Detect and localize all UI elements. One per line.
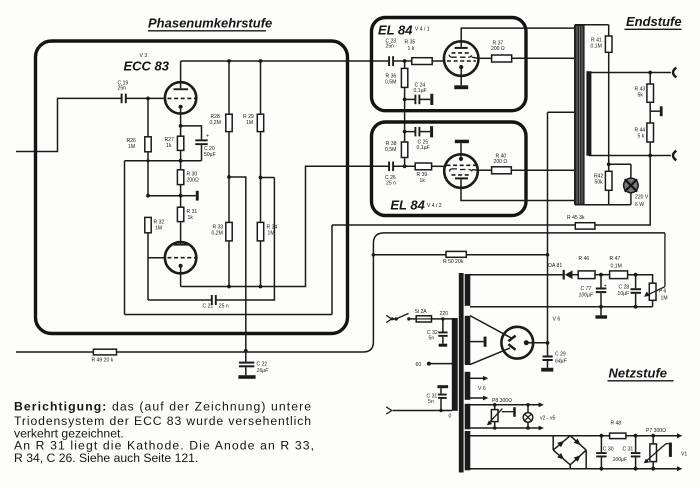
svg-text:0,5M: 0,5M <box>385 79 396 85</box>
resistor R50 <box>372 251 550 265</box>
switch mains <box>392 313 410 320</box>
output stage box EL84 V4/1 <box>372 18 527 111</box>
capacitor C25 <box>403 126 433 151</box>
svg-text:25n: 25n <box>386 44 395 50</box>
wire feedback drop x124.5 <box>124 161 126 315</box>
svg-text:5k: 5k <box>638 92 644 98</box>
output transformer primary <box>574 25 585 205</box>
svg-text:EL 84: EL 84 <box>378 22 413 37</box>
svg-text:P8 300Ω: P8 300Ω <box>492 398 512 404</box>
resistor R33 <box>212 222 233 286</box>
svg-text:1 k: 1 k <box>408 46 415 52</box>
terminal mains input 2 <box>386 407 452 419</box>
svg-text:R 48: R 48 <box>611 421 622 427</box>
resistor R35 <box>405 39 445 64</box>
svg-text:R 46: R 46 <box>579 256 590 262</box>
svg-text:Netzstufe: Netzstufe <box>609 366 668 381</box>
capacitor C30 <box>596 436 628 469</box>
svg-text:Si 2A: Si 2A <box>415 309 428 315</box>
power transformer core <box>459 273 464 473</box>
ground bar at R30/R31 junction <box>181 191 199 201</box>
svg-text:ECC 83: ECC 83 <box>124 59 170 74</box>
triode V3a (upper ECC83) <box>165 82 196 113</box>
capacitor C31 supply <box>623 436 641 469</box>
capacitor C28 <box>618 275 642 307</box>
capacitor C32 <box>427 319 448 347</box>
resistor R48 <box>610 421 626 439</box>
capacitor C20 <box>195 134 215 161</box>
lamp v2-v5 <box>523 405 555 428</box>
wire lower loop y314.5 <box>125 314 333 316</box>
power transformer heater winding V1 <box>465 431 471 470</box>
wire V6 filament leads <box>470 376 488 401</box>
resistor R31 <box>177 196 197 244</box>
svg-text:1M: 1M <box>268 231 275 237</box>
bridge rectifier <box>553 436 586 469</box>
svg-text:220 V: 220 V <box>635 195 649 201</box>
svg-text:100µF: 100µF <box>613 457 628 463</box>
resistor R30 <box>177 161 199 198</box>
resistor R46 <box>578 256 609 279</box>
wire grid line to V3a <box>126 97 165 101</box>
capacitor C23 <box>386 38 397 66</box>
wire B+ center tap <box>548 112 575 343</box>
wire input line <box>16 98 122 151</box>
wire V6 cathode to B+ <box>526 341 549 345</box>
capacitor C26 <box>385 162 415 187</box>
svg-text:220: 220 <box>440 311 449 317</box>
output transformer secondary <box>586 71 591 156</box>
wire V6 plate diagonal upper <box>470 316 511 338</box>
output stage box EL84 V4/2 <box>372 122 527 216</box>
svg-text:0: 0 <box>449 413 452 419</box>
resistor R37 <box>478 41 576 62</box>
capacitor C77 <box>579 275 607 307</box>
svg-text:R 49 20 k: R 49 20 k <box>92 358 114 364</box>
svg-text:EL 84: EL 84 <box>390 198 425 213</box>
title Endstufe <box>625 14 682 29</box>
svg-text:0,2M: 0,2M <box>212 231 223 237</box>
shield bar winding tap <box>470 337 487 347</box>
capacitor C31 mains <box>427 385 449 410</box>
svg-text:OA 81: OA 81 <box>548 263 562 269</box>
wire feedback line y225 <box>332 156 650 315</box>
capacitor C19 <box>118 80 129 103</box>
triode V3b (lower ECC83) <box>165 242 196 273</box>
wire V1 rectifier top rail <box>470 433 682 438</box>
svg-text:0,2M: 0,2M <box>210 120 221 126</box>
wire R29/R34 tap to C21 <box>261 177 275 179</box>
svg-text:0,1M: 0,1M <box>611 264 622 270</box>
svg-text:50µF: 50µF <box>204 152 216 158</box>
resistor R39 <box>415 163 444 184</box>
svg-text:0,5M: 0,5M <box>385 147 396 153</box>
svg-text:6 W: 6 W <box>635 202 644 208</box>
rectifier V6 <box>501 316 560 358</box>
power transformer primary winding <box>452 318 458 411</box>
wire grid line V3b <box>148 257 165 259</box>
svg-text:200 Ω: 200 Ω <box>491 46 505 52</box>
wire secondary top line <box>589 71 671 75</box>
resistor R42 <box>594 164 612 204</box>
svg-text:P 6: P 6 <box>659 289 667 295</box>
svg-text:0,1M: 0,1M <box>591 43 602 49</box>
svg-text:C 28: C 28 <box>619 284 630 290</box>
wire bias line y274.7 <box>470 274 563 276</box>
wire lower rail to EL84/2 grid feed <box>181 166 390 288</box>
wire V4/2 cathode to chassis <box>455 140 469 157</box>
svg-text:1k: 1k <box>188 215 194 221</box>
svg-text:V 4 / 2: V 4 / 2 <box>427 203 442 209</box>
phase inverter stage box <box>36 41 348 334</box>
svg-text:200Ω: 200Ω <box>187 178 199 184</box>
wire R28/R33 tap to C22 <box>229 177 248 353</box>
wire V3a anode to rail <box>180 61 182 88</box>
svg-text:1k: 1k <box>420 178 426 184</box>
potentiometer P7 <box>644 428 687 469</box>
svg-text:C 77: C 77 <box>581 286 592 292</box>
svg-text:200 Ω: 200 Ω <box>494 159 508 165</box>
svg-text:50k: 50k <box>595 179 604 185</box>
wire heater line v2-v5 upper <box>470 398 544 407</box>
resistor R27 <box>165 126 184 161</box>
svg-text:0,1µF: 0,1µF <box>414 88 427 94</box>
svg-text:R 50 20k: R 50 20k <box>443 259 464 265</box>
resistor R28 <box>210 61 233 222</box>
label ECC 83 <box>124 59 170 74</box>
wire primary top jumper to R41 <box>575 24 609 26</box>
label Netzstufe <box>608 366 674 381</box>
wire anode rail y61 to C23 <box>181 59 390 63</box>
resistor R32 <box>145 217 165 300</box>
svg-text:V1: V1 <box>681 452 687 458</box>
diode OA81 <box>548 263 578 280</box>
wire V3b bottom electrode <box>180 268 182 287</box>
svg-text:R 43: R 43 <box>635 86 646 92</box>
wire C23 to R35 <box>393 59 412 63</box>
svg-text:v2 - v5: v2 - v5 <box>540 416 555 422</box>
svg-text:Berichtigung: das (auf der Zei: Berichtigung: das (auf der Zeichnung) un… <box>14 400 311 414</box>
resistor R49 <box>92 349 117 364</box>
svg-text:C 21: C 21 <box>203 303 214 309</box>
terminal output lower <box>673 151 676 161</box>
svg-text:1M: 1M <box>128 144 135 150</box>
terminal mains input 1 <box>386 315 394 322</box>
wire V4/1 cathode <box>460 69 462 85</box>
svg-text:100µF: 100µF <box>579 292 594 298</box>
pentode V4/1 <box>444 41 479 76</box>
ground chassis bar V4/1 cathode <box>454 85 468 89</box>
svg-text:25 n: 25 n <box>219 303 229 309</box>
potentiometer P6 <box>644 233 668 307</box>
wire transformer bottom rail <box>575 204 631 206</box>
svg-text:R 35: R 35 <box>405 39 416 45</box>
svg-text:0,1µF: 0,1µF <box>417 145 430 151</box>
svg-text:64µF: 64µF <box>555 359 568 365</box>
svg-text:1M: 1M <box>661 296 668 302</box>
svg-text:Endstufe: Endstufe <box>626 14 682 29</box>
svg-text:1k: 1k <box>166 143 172 149</box>
potentiometer P8 <box>487 405 516 428</box>
wire V4/2 anode out <box>461 179 575 200</box>
svg-text:V 6: V 6 <box>478 386 486 392</box>
resistor R29 <box>243 61 264 222</box>
label V3 <box>140 53 148 59</box>
node 60 tap <box>416 362 453 368</box>
wire junction to R32 column <box>146 194 181 198</box>
wire V6 plate diagonal lower <box>470 348 510 365</box>
svg-text:R 47: R 47 <box>610 256 621 262</box>
svg-text:16µF: 16µF <box>257 368 270 374</box>
resistor R38 <box>385 141 408 168</box>
svg-text:C 22: C 22 <box>257 361 268 367</box>
svg-text:60: 60 <box>416 362 422 368</box>
note Berichtigung text <box>14 400 314 465</box>
resistor R45 <box>567 215 595 229</box>
svg-text:10µF: 10µF <box>618 291 630 297</box>
ground bar at R43/R44 junction <box>650 106 662 116</box>
resistor R26 <box>127 98 152 195</box>
capacitor C24 <box>405 83 434 106</box>
wire secondary bottom line <box>589 154 671 158</box>
wire V1 rectifier bottom rail <box>470 466 682 471</box>
svg-text:V 4 / 1: V 4 / 1 <box>415 27 430 33</box>
power transformer V6 filament winding <box>465 372 471 400</box>
lamp 220V 6W <box>609 164 649 208</box>
wire cathode feedback line y161 <box>125 159 202 163</box>
svg-text:25 n: 25 n <box>386 181 396 187</box>
resistor R41 <box>591 25 613 166</box>
wire cathode to C20 <box>181 126 202 139</box>
resistor R36 <box>385 61 408 142</box>
wire ground/feedback rail y352 <box>16 233 665 352</box>
svg-text:R 34, C 26. Siehe auch Seite 1: R 34, C 26. Siehe auch Seite 121. <box>14 451 198 465</box>
terminal output upper <box>673 68 676 78</box>
svg-text:Phasenumkehrstufe: Phasenumkehrstufe <box>148 16 272 31</box>
svg-text:R 44: R 44 <box>635 127 646 133</box>
svg-text:5n: 5n <box>428 399 434 405</box>
svg-text:C 30: C 30 <box>603 446 614 452</box>
power transformer heater winding v2-v5 <box>465 404 471 430</box>
svg-text:R 45 3k: R 45 3k <box>567 215 585 221</box>
capacitor C22 <box>238 351 269 379</box>
label EL 84 V4/2 <box>390 198 441 213</box>
resistor R47 <box>610 256 653 283</box>
wire heater line v2-v5 lower <box>470 426 544 431</box>
svg-text:C 29: C 29 <box>555 352 566 358</box>
svg-text:C 31: C 31 <box>623 446 634 452</box>
title Phasenumkehrstufe <box>148 16 272 31</box>
fuse Si 2A <box>409 309 452 322</box>
power transformer HV bias winding <box>465 274 471 306</box>
resistor R43 <box>635 73 654 124</box>
resistor R40 <box>478 153 576 173</box>
resistor R44 <box>635 123 654 156</box>
wire bias ground line <box>470 305 653 309</box>
ground bar bias filter <box>595 307 607 319</box>
svg-text:V 6: V 6 <box>553 316 561 322</box>
wire V3a cathode <box>179 109 183 128</box>
svg-text:5n: 5n <box>429 336 435 342</box>
svg-text:+: + <box>206 134 209 140</box>
svg-text:+: + <box>604 283 607 289</box>
resistor R34 <box>257 222 277 286</box>
svg-text:1M: 1M <box>155 226 162 232</box>
svg-text:25n: 25n <box>118 85 127 91</box>
svg-text:P7 300Ω: P7 300Ω <box>646 428 666 434</box>
label EL 84 V4/1 <box>378 22 430 37</box>
power transformer HT winding <box>465 316 471 365</box>
svg-text:1M: 1M <box>246 120 253 126</box>
capacitor C21 <box>148 178 274 310</box>
svg-text:5 k: 5 k <box>638 133 645 139</box>
wire V4/1 anode to transformer <box>461 28 575 47</box>
pentode V4/2 inverted <box>444 154 478 188</box>
capacitor C29 <box>541 343 567 372</box>
